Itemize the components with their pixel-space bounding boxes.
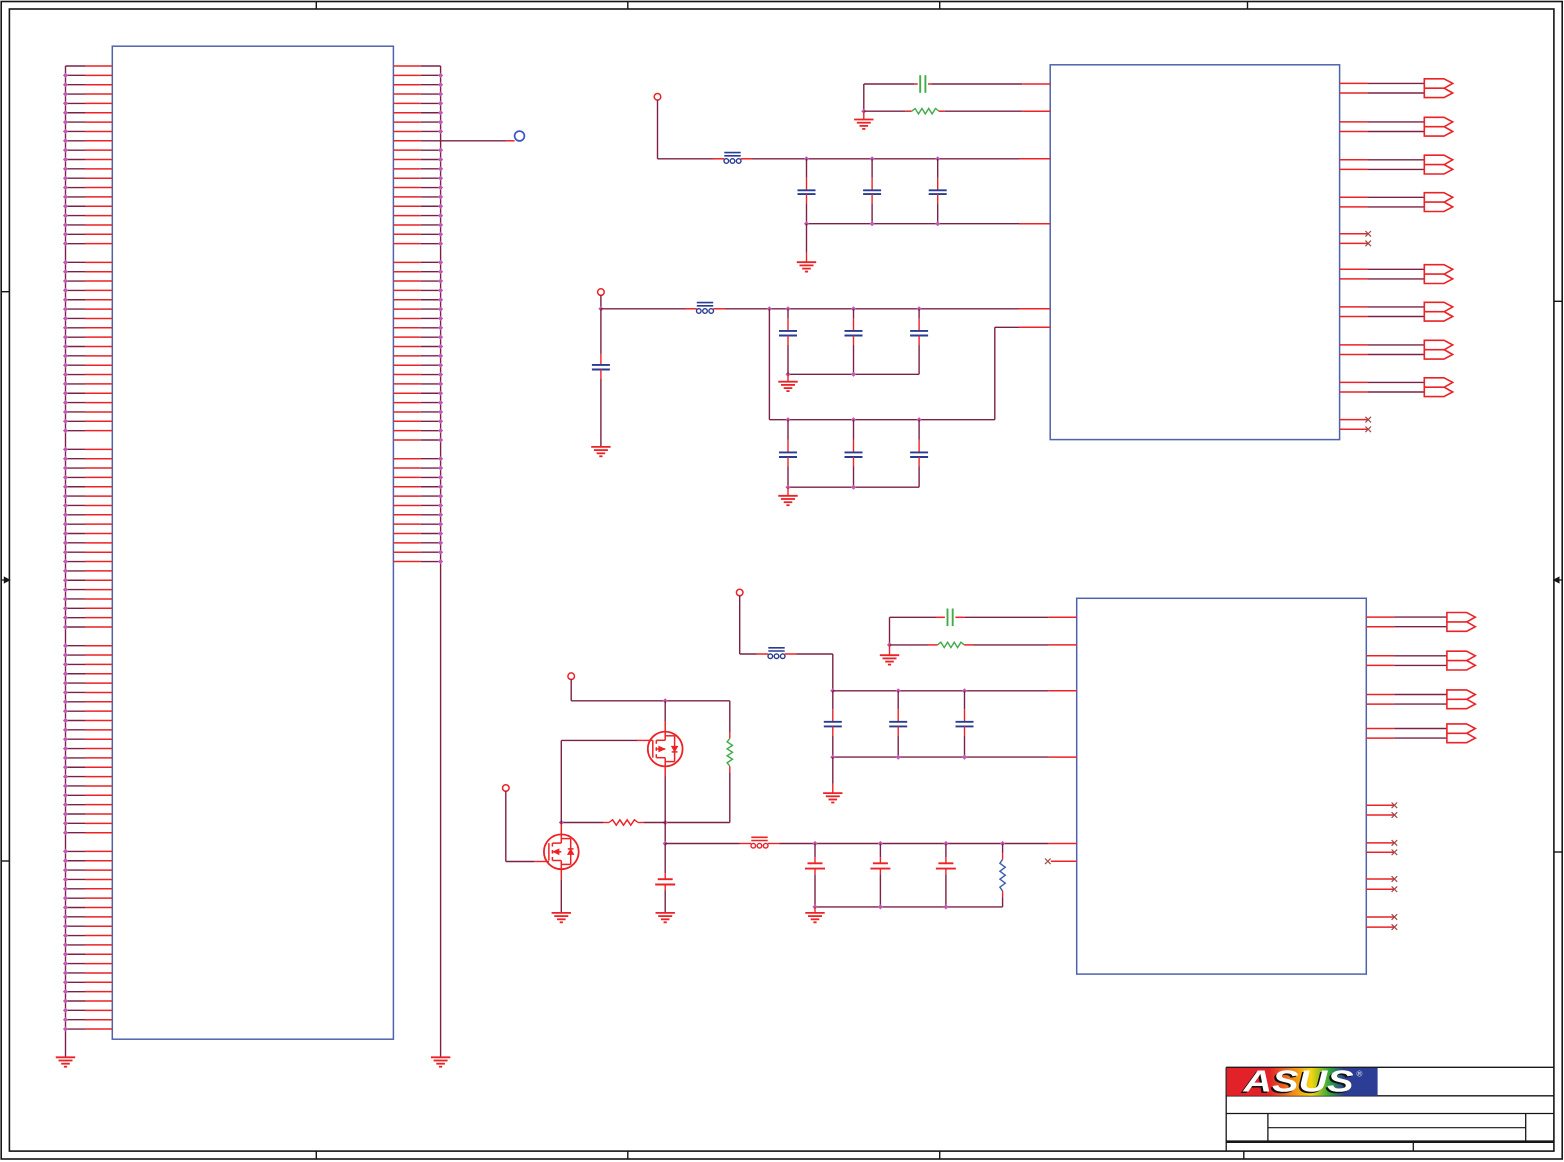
power node VCC1 bbox=[654, 94, 661, 101]
off-page port P3 bbox=[1424, 155, 1452, 174]
wire Q1 source down to output bus bbox=[664, 823, 666, 844]
title block outline bbox=[1226, 1067, 1554, 1151]
U3 right pin wire (port 1) bbox=[1366, 616, 1447, 618]
junction output bus left bbox=[663, 841, 668, 846]
U3 right pin wire (port 3) bbox=[1366, 694, 1447, 696]
U1 right pin row 23 bbox=[393, 269, 443, 274]
U1 left pin row 25 bbox=[63, 288, 112, 293]
wire VCC2 bus drop bbox=[768, 309, 770, 420]
junction on VCC2 bus bbox=[851, 306, 856, 311]
U1 left pin row 90 bbox=[63, 896, 112, 901]
capacitor C6 bbox=[779, 309, 797, 375]
U1 left pin row 93 bbox=[63, 924, 112, 929]
U1 right pin row 34 bbox=[393, 372, 443, 377]
U2 right pin wire (port 7) bbox=[1340, 354, 1425, 356]
capacitor C16 (output) bbox=[655, 844, 675, 913]
U3 no-connect pin bbox=[1366, 812, 1397, 818]
U1 left pin row 31 bbox=[63, 344, 112, 349]
U2 right pin wire (port 5) bbox=[1340, 268, 1425, 270]
U3 no-connect pin bbox=[1366, 924, 1397, 930]
capacitor C5 (bulk) bbox=[592, 309, 610, 447]
U1 left pin row 77 bbox=[63, 774, 112, 779]
U1 left pin row 29 bbox=[63, 325, 112, 330]
junction on output bus bbox=[812, 841, 817, 846]
U1 right pin row 22 bbox=[393, 260, 443, 265]
U1 left pin row 96 bbox=[63, 952, 112, 957]
wire VCC4 horizontal to resistor branch bbox=[571, 700, 730, 702]
wire VCC3 to ferrite FB3 bbox=[740, 653, 769, 655]
U1 left pin row 33 bbox=[63, 363, 112, 368]
capacitor C12 (series) bbox=[948, 609, 953, 627]
U2 right pin wire (port 4) bbox=[1340, 196, 1425, 198]
U1 left pin row 48 bbox=[63, 503, 112, 508]
U1 right pin row 48 bbox=[393, 503, 443, 508]
wire R3 lower leg bbox=[665, 766, 730, 822]
border center arrow right bbox=[1554, 577, 1562, 582]
junction on return bus bbox=[812, 904, 817, 909]
U2 right pin wire (port 2) bbox=[1340, 121, 1425, 123]
U1 left pin row 18 bbox=[63, 222, 112, 227]
U1 left pin row 10 bbox=[63, 148, 112, 153]
junction on output bus bbox=[1000, 841, 1005, 846]
resistor R1 bbox=[912, 109, 939, 114]
U2 right pin wire (port 6) bbox=[1340, 316, 1425, 318]
wire R4 to Q2 drain node bbox=[561, 822, 609, 824]
U1 right pin row 24 bbox=[393, 278, 443, 283]
junction on return bus bbox=[830, 755, 835, 760]
U1 left pin row 78 bbox=[63, 783, 112, 788]
wire Q1 gate riser bbox=[560, 740, 562, 822]
ASUS logo bbox=[1227, 1064, 1378, 1101]
U1 left pin row 52 bbox=[63, 540, 112, 545]
border zone tick top 4 bbox=[1247, 2, 1249, 10]
junction on output bus bbox=[943, 841, 948, 846]
U1 left pin row 82 bbox=[63, 821, 112, 826]
off-page port P4 bbox=[1424, 193, 1452, 212]
wire Q1 gate horizontal bbox=[561, 739, 653, 741]
junction VCC2 node bbox=[598, 306, 603, 311]
U1 left pin row 101 bbox=[63, 998, 112, 1003]
border center arrow left bbox=[1, 577, 9, 582]
U1 right pin row 52 bbox=[393, 540, 443, 545]
svg-text:®: ® bbox=[1357, 1070, 1363, 1079]
border zone tick top 2 bbox=[627, 2, 629, 10]
junction on VCC3 bus bbox=[896, 688, 901, 693]
resistor R2 bbox=[938, 642, 965, 647]
U1 left pin row 102 bbox=[63, 1008, 112, 1013]
U1 left pin row 99 bbox=[63, 980, 112, 985]
U1 left pin row 98 bbox=[63, 970, 112, 975]
U1 right pin row 50 bbox=[393, 522, 443, 527]
ground (feedback node) bbox=[854, 120, 873, 129]
U2 no-connect pin bbox=[1340, 417, 1371, 423]
resistor R3 branch (green, vertical) bbox=[729, 701, 731, 739]
junction on lower bus bbox=[851, 417, 856, 422]
U1 left pin row 100 bbox=[63, 989, 112, 994]
wire return bus to ground bbox=[814, 907, 816, 913]
U3 no-connect pin bbox=[1366, 803, 1397, 809]
capacitor C14 bbox=[889, 691, 907, 757]
junction on VCC2 bus bbox=[917, 306, 922, 311]
junction feedback node bbox=[861, 109, 866, 114]
U1 left pin row 36 bbox=[63, 391, 112, 396]
U2 right pin wire (port 4) bbox=[1340, 206, 1425, 208]
wire Q2 source to ground bbox=[560, 879, 562, 913]
off-page port P6 bbox=[1424, 302, 1452, 321]
border zone tick right 1 bbox=[1554, 300, 1562, 302]
IC U2 body bbox=[1050, 65, 1339, 440]
U1 left pin row 103 bbox=[63, 1017, 112, 1022]
U1 left pin row 63 bbox=[63, 643, 112, 648]
junction on return bus bbox=[851, 372, 856, 377]
wire return bus to ground bbox=[832, 757, 834, 793]
junction Q2 drain node bbox=[559, 820, 564, 825]
U2 right pin wire (port 6) bbox=[1340, 306, 1425, 308]
wire cap bank B lower return bus bbox=[788, 486, 919, 488]
U1 left pin row 30 bbox=[63, 335, 112, 340]
wire output bus to ferrite FB4 bbox=[665, 843, 751, 845]
wire cap bank D return bus bbox=[815, 906, 1003, 908]
U1 right pin row 44 bbox=[393, 465, 443, 470]
capacitor C3 bbox=[929, 159, 947, 224]
U1 left pin row 13 bbox=[63, 176, 112, 181]
U3 no-connect pin bbox=[1366, 840, 1397, 846]
wire bottom bus to ground bbox=[806, 224, 808, 263]
U1 right pin row 30 bbox=[393, 335, 443, 340]
U1 right pin row 10 bbox=[393, 148, 443, 153]
U1 left pin row 38 bbox=[63, 409, 112, 414]
wire cap bank bottom bus to U2 pin bbox=[807, 223, 1051, 225]
junction gate drive node right bbox=[663, 820, 668, 825]
power node VCC3 bbox=[736, 589, 743, 596]
resistor R5 (blue, vertical) bbox=[1002, 844, 1004, 860]
U1 left pin row 76 bbox=[63, 765, 112, 770]
off-page port Q2 bbox=[1447, 651, 1475, 670]
wire lower return bus to ground bbox=[787, 487, 789, 496]
U1 left pin row 44 bbox=[63, 465, 112, 470]
U1 right pin row 29 bbox=[393, 325, 443, 330]
capacitor C17 bbox=[805, 844, 825, 907]
ground (C16) bbox=[656, 913, 675, 922]
junction on return bus bbox=[943, 904, 948, 909]
junction on VCC2 bus bbox=[767, 306, 772, 311]
U3 right pin wire (port 2) bbox=[1366, 655, 1447, 657]
U1 left pin row 14 bbox=[63, 185, 112, 190]
U1 right pin row 40 bbox=[393, 428, 443, 433]
wire to open terminal bbox=[441, 140, 515, 142]
U1 left pin row 56 bbox=[63, 578, 112, 583]
U1 left pin row 81 bbox=[63, 811, 112, 816]
U1 left pin row 51 bbox=[63, 531, 112, 536]
U1 left pin row 17 bbox=[63, 213, 112, 218]
wire FB4 to U3 pin bbox=[768, 843, 1077, 845]
wire R5 lower leg bbox=[1002, 891, 1004, 907]
U1 left pin row 66 bbox=[63, 671, 112, 676]
U1 left pin row 26 bbox=[63, 297, 112, 302]
wire Q2 gate horizontal bbox=[506, 861, 549, 863]
U1 left pin row 6 bbox=[63, 110, 112, 115]
U2 right pin wire (port 5) bbox=[1340, 278, 1425, 280]
U1 right pin row 1 bbox=[393, 65, 440, 67]
U1 left pin row 45 bbox=[63, 475, 112, 480]
off-page port P2 bbox=[1424, 117, 1452, 136]
capacitor C1 bbox=[798, 159, 816, 224]
wire U2 feedback upper bbox=[864, 83, 1050, 85]
transistor Q1 (N-MOSFET) bbox=[648, 721, 683, 777]
U1 left pin row 35 bbox=[63, 381, 112, 386]
ground (cap bank B lower) bbox=[778, 496, 797, 505]
U1 right pin row 47 bbox=[393, 494, 443, 499]
U1 left pin row 75 bbox=[63, 755, 112, 760]
capacitor C11 bbox=[910, 420, 928, 488]
off-page port P1 bbox=[1424, 79, 1452, 98]
wire VCC3 bus to U3 pin bbox=[833, 690, 1077, 692]
IC U3 body bbox=[1077, 598, 1367, 974]
U1 right pin row 15 bbox=[393, 194, 443, 199]
junction on bottom bus bbox=[870, 221, 875, 226]
U1 left pin row 67 bbox=[63, 681, 112, 686]
U1 right pin row 17 bbox=[393, 213, 443, 218]
U1 right pin row 4 bbox=[393, 91, 443, 96]
U1 left pin row 12 bbox=[63, 166, 112, 171]
border zone tick bottom 2 bbox=[627, 1151, 629, 1159]
U1 left pin row 104 bbox=[63, 1026, 112, 1031]
U1 right pin row 53 bbox=[393, 550, 443, 555]
U1 left pin row 37 bbox=[63, 400, 112, 405]
wire cap bank B upper return bus bbox=[788, 373, 919, 375]
U1 right pin row 6 bbox=[393, 110, 443, 115]
U1 left pin row 42 bbox=[63, 447, 112, 452]
resistor R4 bbox=[609, 820, 638, 825]
U3 right pin wire (port 4) bbox=[1366, 728, 1447, 730]
ground (cap bank C) bbox=[823, 793, 842, 802]
U1 left pin row 83 bbox=[63, 830, 112, 835]
transistor Q2 (P-MOSFET) bbox=[544, 824, 579, 880]
U3 no-connect pin bbox=[1366, 886, 1397, 892]
U1 left pin row 73 bbox=[63, 737, 112, 742]
junction on VCC1 bus bbox=[870, 156, 875, 161]
wire cap bank C return bus to U3 pin bbox=[833, 756, 1077, 758]
U1 right pin row 33 bbox=[393, 363, 443, 368]
U1 left pin row 16 bbox=[63, 204, 112, 209]
U1 right pin row 13 bbox=[393, 176, 443, 181]
U1 right pin row 2 bbox=[393, 73, 443, 78]
U2 right pin wire (port 2) bbox=[1340, 131, 1425, 133]
power node VCC4 bbox=[568, 673, 575, 680]
U1 right pin row 14 bbox=[393, 185, 443, 190]
ferrite bead FB3 bbox=[768, 648, 785, 659]
border zone tick bottom 1 bbox=[315, 1151, 317, 1159]
U1 left pin row 3 bbox=[63, 82, 112, 87]
U1 left pin row 20 bbox=[63, 241, 112, 246]
U1 left pin bus wire bbox=[65, 66, 67, 1057]
U2 no-connect pin bbox=[1340, 241, 1371, 247]
ground (cap bank A) bbox=[797, 262, 816, 271]
U1 left pin row 5 bbox=[63, 101, 112, 106]
capacitor C10 bbox=[845, 420, 863, 488]
junction on VCC1 bus bbox=[935, 156, 940, 161]
U1 left pin row 65 bbox=[63, 662, 112, 667]
U3 no-connect pin bbox=[1366, 876, 1397, 882]
U1 right pin row 9 bbox=[393, 140, 440, 142]
U1 right pin row 7 bbox=[393, 120, 443, 125]
junction on return bus bbox=[785, 372, 790, 377]
U1 left pin row 74 bbox=[63, 746, 112, 751]
junction on VCC1 bus bbox=[804, 156, 809, 161]
wire FB3 corner to bus bbox=[785, 654, 833, 691]
U2 right pin wire (port 3) bbox=[1340, 168, 1425, 170]
U1 left pin row 1 bbox=[66, 65, 113, 67]
off-page port Q1 bbox=[1447, 613, 1475, 632]
U1 left pin row 69 bbox=[63, 699, 112, 704]
junction on VCC3 bus bbox=[962, 688, 967, 693]
U1 left pin row 89 bbox=[63, 886, 112, 891]
junction VCC3 bus left bbox=[830, 688, 835, 693]
junction on bottom bus bbox=[935, 221, 940, 226]
junction on VCC2 bus bbox=[785, 306, 790, 311]
U1 left pin row 4 bbox=[63, 91, 112, 96]
U1 right pin row 39 bbox=[393, 419, 443, 424]
capacitor C9 bbox=[779, 420, 797, 488]
U1 left pin row 49 bbox=[63, 512, 112, 517]
wire resistor R1 row bbox=[864, 110, 912, 112]
capacitor C18 bbox=[870, 844, 890, 907]
U1 right pin row 3 bbox=[393, 82, 443, 87]
U3 right pin wire (port 2) bbox=[1366, 664, 1447, 666]
junction on lower return bus bbox=[785, 485, 790, 490]
wire R2 to U3 pin bbox=[964, 644, 1076, 646]
U1 left pin row 55 bbox=[63, 568, 112, 573]
U1 right pin row 45 bbox=[393, 475, 443, 480]
junction U3 feedback node bbox=[887, 642, 892, 647]
wire U3 feedback upper bbox=[890, 616, 1077, 618]
U2 right pin wire (port 3) bbox=[1340, 159, 1425, 161]
ground (cap bank B upper) bbox=[778, 382, 797, 391]
U1 right pin row 35 bbox=[393, 381, 443, 386]
U2 right pin wire (port 8) bbox=[1340, 381, 1425, 383]
capacitor C7 bbox=[845, 309, 863, 375]
wire R1 to U2 pin bbox=[939, 110, 1050, 112]
junction Q1 drain node bbox=[663, 698, 668, 703]
U1 left pin row 24 bbox=[63, 278, 112, 283]
power node VCC5 bbox=[503, 785, 510, 792]
U1 left pin row 64 bbox=[63, 652, 112, 657]
U1 right pin row 5 bbox=[393, 101, 443, 106]
U1 left pin row 47 bbox=[63, 494, 112, 499]
U1 left pin row 85 bbox=[63, 849, 112, 854]
ground (Q2 source) bbox=[552, 913, 571, 922]
wire return bus to ground bbox=[787, 372, 789, 382]
border zone tick left 2 bbox=[1, 860, 9, 862]
U1 left pin row 8 bbox=[63, 129, 112, 134]
U1 left pin row 97 bbox=[63, 961, 112, 966]
U1 right pin row 54 bbox=[393, 559, 443, 564]
ground (cap bank D) bbox=[805, 913, 824, 922]
U1 left pin row 53 bbox=[63, 550, 112, 555]
off-page port P7 bbox=[1424, 340, 1452, 359]
U1 left pin row 59 bbox=[63, 606, 112, 611]
U1 left pin row 70 bbox=[63, 709, 112, 714]
wire corner down to junction bbox=[863, 84, 865, 111]
U1 right pin row 18 bbox=[393, 222, 443, 227]
wire VCC1 vertical bbox=[657, 100, 659, 159]
off-page port P5 bbox=[1424, 265, 1452, 284]
ground (U1 left bus) bbox=[56, 1057, 75, 1066]
U1 right pin row 37 bbox=[393, 400, 443, 405]
U1 right pin row 11 bbox=[393, 157, 443, 162]
ferrite bead FB1 bbox=[724, 153, 741, 164]
open terminal circle bbox=[515, 131, 525, 141]
ground (C5) bbox=[591, 447, 610, 456]
wire junction to ground stub bbox=[863, 111, 865, 119]
U1 right pin row 27 bbox=[393, 307, 443, 312]
U1 right pin row 51 bbox=[393, 531, 443, 536]
U1 left pin row 27 bbox=[63, 307, 112, 312]
U1 left pin row 88 bbox=[63, 877, 112, 882]
U1 right pin row 19 bbox=[393, 232, 443, 237]
U1 right pin row 32 bbox=[393, 353, 443, 358]
U3 no-connect pin bbox=[1366, 914, 1397, 920]
junction on lower bus bbox=[785, 417, 790, 422]
U1 left pin row 54 bbox=[63, 559, 112, 564]
U1 left pin row 43 bbox=[63, 456, 112, 461]
U1 left pin row 40 bbox=[63, 428, 112, 433]
U1 left pin row 61 bbox=[63, 624, 112, 629]
U1 right pin row 31 bbox=[393, 344, 443, 349]
U1 left pin row 50 bbox=[63, 522, 112, 527]
wire junction to ground stub bbox=[889, 645, 891, 655]
ground (U3 feedback node) bbox=[880, 655, 899, 664]
junction on output bus bbox=[878, 841, 883, 846]
U1 right pin row 36 bbox=[393, 391, 443, 396]
U1 left pin row 68 bbox=[63, 690, 112, 695]
U1 left pin row 60 bbox=[63, 615, 112, 620]
wire corner down to junction bbox=[889, 617, 891, 645]
capacitor C2 bbox=[863, 159, 881, 224]
U1 left pin row 9 bbox=[63, 138, 112, 143]
U2 no-connect pin bbox=[1340, 231, 1371, 237]
junction on lower return bus bbox=[851, 485, 856, 490]
U1 left pin row 80 bbox=[63, 802, 112, 807]
U1 left pin row 92 bbox=[63, 914, 112, 919]
U1 left pin row 79 bbox=[63, 793, 112, 798]
U1 left pin row 72 bbox=[63, 727, 112, 732]
wire lower distribution bus bbox=[769, 419, 994, 421]
U1 left pin row 39 bbox=[63, 419, 112, 424]
IC U1 body bbox=[112, 46, 393, 1039]
U1 right pin row 20 bbox=[393, 241, 443, 246]
U1 left pin row 87 bbox=[63, 868, 112, 873]
U1 right pin row 8 bbox=[393, 129, 443, 134]
junction on bottom bus bbox=[804, 221, 809, 226]
resistor R5 bbox=[1000, 859, 1005, 891]
capacitor C15 bbox=[956, 691, 974, 757]
U3 no-connect pin bbox=[1366, 850, 1397, 856]
U1 right pin row 16 bbox=[393, 204, 443, 209]
capacitor C13 bbox=[824, 691, 842, 757]
U1 left pin row 19 bbox=[63, 232, 112, 237]
U1 left pin row 2 bbox=[63, 73, 112, 78]
U1 left pin row 11 bbox=[63, 157, 112, 162]
U2 right pin wire (port 1) bbox=[1340, 92, 1425, 94]
resistor R4 row (red) bbox=[638, 822, 665, 824]
wire VCC5 vertical bbox=[505, 791, 507, 862]
U1 left pin row 7 bbox=[63, 120, 112, 125]
U1 left pin row 58 bbox=[63, 596, 112, 601]
U3 right pin wire (port 3) bbox=[1366, 703, 1447, 705]
U1 left pin row 91 bbox=[63, 905, 112, 910]
wire VCC1 to ferrite FB1 bbox=[658, 158, 725, 160]
